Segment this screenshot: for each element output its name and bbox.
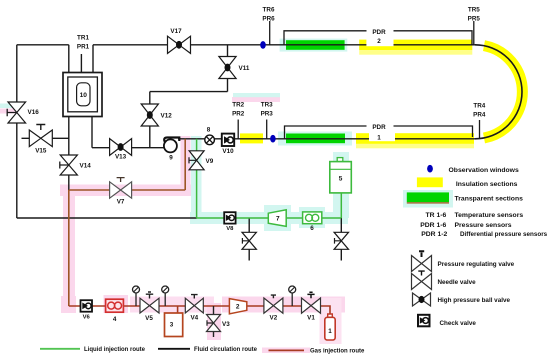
highlight cyan behind cone 7 — [264, 205, 291, 231]
wire bottom row main — [69, 306, 330, 314]
wire stub valve 1 drop — [248, 218, 250, 261]
legend needle valve — [412, 271, 477, 289]
node PDR 1 white box — [369, 128, 395, 141]
svg-text:5: 5 — [339, 176, 343, 183]
svg-text:1: 1 — [377, 134, 381, 141]
ejector 7 — [268, 210, 286, 227]
observation window top — [260, 41, 266, 49]
highlight pink behind legend gas line — [262, 348, 310, 354]
node PDR 2 white box — [366, 34, 393, 47]
svg-text:V7: V7 — [117, 199, 125, 206]
svg-text:1: 1 — [328, 328, 332, 335]
svg-text:PR2: PR2 — [232, 111, 245, 118]
svg-text:7: 7 — [276, 215, 280, 222]
check valve V10 — [222, 134, 234, 155]
highlight cyan under top green band — [280, 39, 348, 52]
svg-text:PDR: PDR — [372, 29, 386, 36]
highlight pink behind brown vertical x69 — [63, 190, 75, 310]
wire stub valve 2 drop — [340, 218, 342, 261]
svg-text:V11: V11 — [239, 65, 250, 72]
wire vessel top-right pipe — [92, 45, 94, 73]
svg-text:2: 2 — [377, 38, 381, 45]
highlight pink behind brown vertical x185 — [181, 136, 191, 191]
wire brown vertical x69 — [68, 190, 70, 306]
highlight band pink left edge — [0, 109, 18, 114]
svg-text:TR5: TR5 — [468, 7, 480, 14]
wire brown vertical x185 — [184, 139, 186, 190]
valve V7 — [110, 178, 132, 206]
highlight pink behind V3 stub — [207, 303, 221, 340]
wire green vessel5 vertical — [340, 192, 342, 218]
svg-text:V5: V5 — [145, 315, 153, 322]
wire dip tube into vessel 3 — [177, 306, 179, 331]
svg-text:Fluid circulation route: Fluid circulation route — [194, 347, 258, 353]
wire TR6 PR6 tick — [269, 21, 271, 45]
gauge near 4 — [133, 286, 140, 293]
legend gas injection route — [269, 349, 305, 351]
svg-text:Pressure regulating valve: Pressure regulating valve — [438, 261, 515, 268]
wire V11-V12 connector — [150, 91, 228, 93]
wire circulation line y218 — [17, 217, 197, 219]
wire vessel bottom-left pipe through V14 — [68, 116, 70, 190]
svg-text:V4: V4 — [190, 315, 198, 322]
svg-text:Check valve: Check valve — [440, 320, 477, 327]
svg-text:PR6: PR6 — [262, 16, 275, 23]
svg-text:V9: V9 — [206, 158, 214, 165]
svg-text:8: 8 — [207, 127, 211, 134]
wire gauge stem near V1 — [291, 293, 293, 307]
wire V13 to pump inlet — [92, 147, 165, 149]
pale yellow halo under bottom band — [356, 144, 474, 148]
gas cylinder 1 — [325, 314, 335, 340]
svg-text:3: 3 — [170, 322, 174, 329]
valve V14 — [60, 155, 91, 175]
wire gauge stem near 3 — [164, 293, 166, 307]
svg-text:PDR: PDR — [372, 124, 386, 131]
highlight pink behind bottom row mid — [130, 297, 214, 313]
svg-text:V12: V12 — [161, 113, 173, 120]
valve V5 — [140, 292, 159, 322]
highlight pink behind cylinder 1 — [320, 298, 342, 344]
highlight cyan behind green horizontal — [190, 212, 348, 224]
check valve V6 — [81, 300, 93, 320]
valve V15 — [29, 125, 52, 155]
wire green horizontal to V8 etc — [197, 217, 342, 219]
svg-text:TR1: TR1 — [77, 35, 89, 42]
svg-text:Needle valve: Needle valve — [438, 279, 477, 286]
wire main top pipe — [93, 44, 475, 46]
wire U-bend pipe — [475, 45, 522, 139]
valve V1 — [302, 292, 321, 321]
svg-text:6: 6 — [310, 225, 314, 232]
wire PDR2 bracket — [284, 31, 472, 45]
wire TR1 PR1 probe — [80, 54, 82, 73]
svg-text:TR4: TR4 — [473, 103, 485, 110]
valve V2 — [264, 295, 283, 321]
highlight band cyan above TR2 labels — [233, 93, 280, 97]
flow meter 6 — [303, 212, 322, 232]
valve V16 — [7, 102, 39, 123]
svg-text:V14: V14 — [80, 163, 92, 170]
insulation yellow bottom band — [356, 133, 474, 144]
wire vessel top-left pipe — [68, 45, 70, 73]
legend fluid circulation route — [158, 348, 190, 350]
vessel 10 — [63, 73, 102, 117]
svg-text:TR3: TR3 — [261, 102, 273, 109]
svg-text:V3: V3 — [222, 321, 230, 328]
wire main bottom pipe — [178, 138, 475, 140]
flow meter 4 — [106, 299, 124, 323]
svg-text:10: 10 — [80, 92, 88, 99]
observation window bottom — [270, 135, 276, 143]
svg-text:V13: V13 — [115, 154, 127, 161]
wire V15 horizontal — [22, 137, 69, 139]
wire green V9 vertical — [196, 139, 198, 218]
strainer 8 — [205, 127, 215, 145]
highlight pink behind V7 line — [60, 185, 191, 197]
stub valve below V8 line — [242, 232, 256, 249]
svg-text:V1: V1 — [307, 315, 315, 322]
highlight band cyan left edge — [0, 104, 18, 109]
svg-text:V16: V16 — [28, 109, 40, 116]
svg-text:PDR 1-2: PDR 1-2 — [421, 231, 447, 238]
svg-text:Insulation sections: Insulation sections — [456, 181, 518, 188]
highlight band pink above TR2 labels — [232, 97, 280, 102]
svg-text:PR5: PR5 — [468, 16, 481, 23]
svg-text:TR 1-6: TR 1-6 — [426, 212, 447, 219]
legend high pressure ball valve — [413, 293, 511, 306]
svg-text:Pressure sensors: Pressure sensors — [455, 222, 512, 229]
svg-text:V15: V15 — [35, 148, 47, 155]
check valve V8 — [224, 212, 235, 232]
svg-text:TR2: TR2 — [232, 102, 244, 109]
wire V3 stub — [213, 306, 215, 337]
svg-text:Gas injection route: Gas injection route — [310, 349, 365, 355]
valve V3 — [207, 315, 231, 332]
svg-text:Temperature sensors: Temperature sensors — [455, 212, 524, 219]
transparent green bottom band — [286, 134, 345, 144]
highlight cyan behind box 6 — [299, 207, 325, 228]
wire TR4 PR4 tick — [479, 120, 481, 139]
wire brown V7 horizontal — [69, 189, 185, 191]
wire TR3 PR3 tick — [266, 120, 268, 139]
valve V13 — [110, 139, 132, 161]
wire vessel bottom-right pipe — [91, 116, 93, 148]
svg-text:Observation windows: Observation windows — [449, 167, 519, 174]
wire PDR1 bracket — [285, 126, 473, 139]
svg-text:V17: V17 — [170, 28, 182, 35]
valve V12 — [141, 104, 172, 126]
legend transparent swatch — [403, 190, 453, 208]
compressor 2 — [229, 299, 246, 314]
insulation yellow segment left of bottom window — [240, 133, 263, 143]
wire TR2 PR2 tick — [237, 120, 239, 139]
legend insulation swatch — [417, 177, 443, 187]
svg-text:PR4: PR4 — [473, 112, 486, 119]
vessel 5 — [330, 158, 352, 193]
insulation yellow bend arc — [484, 46, 522, 138]
wire gauge stem near 4 — [135, 293, 137, 307]
svg-text:2: 2 — [236, 303, 240, 310]
wire top-left horizontal y45 — [17, 44, 69, 46]
svg-text:TR6: TR6 — [263, 7, 275, 14]
svg-text:9: 9 — [169, 155, 173, 162]
svg-text:High pressure ball valve: High pressure ball valve — [438, 297, 511, 304]
wire TR5 PR5 tick — [473, 21, 475, 45]
highlight cyan behind V9 vertical — [191, 136, 202, 220]
valve V17 — [168, 28, 191, 53]
svg-text:V10: V10 — [222, 148, 234, 155]
valve V11 — [219, 57, 250, 79]
gauge near 3 — [162, 286, 169, 293]
highlight pink behind flow meter 4 — [104, 295, 129, 313]
svg-text:V8: V8 — [226, 226, 234, 232]
svg-text:4: 4 — [113, 316, 117, 323]
highlight pink behind bottom row corner — [61, 296, 76, 313]
valve V4 — [185, 295, 203, 322]
svg-text:Differential pressure sensors: Differential pressure sensors — [460, 231, 548, 238]
svg-text:PR1: PR1 — [77, 44, 90, 51]
svg-text:PDR 1-6: PDR 1-6 — [420, 222, 446, 229]
transparent green top band — [286, 40, 345, 50]
legend observation window — [427, 165, 433, 173]
highlight cyan under bottom green band — [278, 132, 352, 146]
vessel 3 — [165, 313, 183, 337]
gauge near V1 — [289, 286, 296, 293]
valve V9 — [189, 151, 214, 170]
insulation yellow top band — [359, 40, 472, 51]
highlight cyan behind vessel 5 — [333, 152, 349, 218]
wire V11 vertical — [227, 45, 229, 92]
svg-text:Liquid injection route: Liquid injection route — [84, 347, 146, 353]
svg-text:V2: V2 — [270, 315, 278, 322]
stub valve below vessel5 line — [334, 232, 348, 249]
svg-text:Transparent sections: Transparent sections — [455, 195, 524, 202]
legend pressure regulating valve — [412, 251, 515, 271]
svg-text:V6: V6 — [83, 315, 91, 321]
wire V12 vertical — [149, 92, 151, 148]
pump 9 — [164, 137, 179, 161]
wire left vertical x16.8 — [16, 45, 18, 218]
highlight pink behind bottom row right — [222, 297, 345, 313]
legend check valve — [418, 315, 476, 327]
pale yellow halo under top band — [359, 50, 472, 55]
svg-text:PR3: PR3 — [261, 111, 274, 118]
legend liquid injection route — [40, 348, 80, 350]
